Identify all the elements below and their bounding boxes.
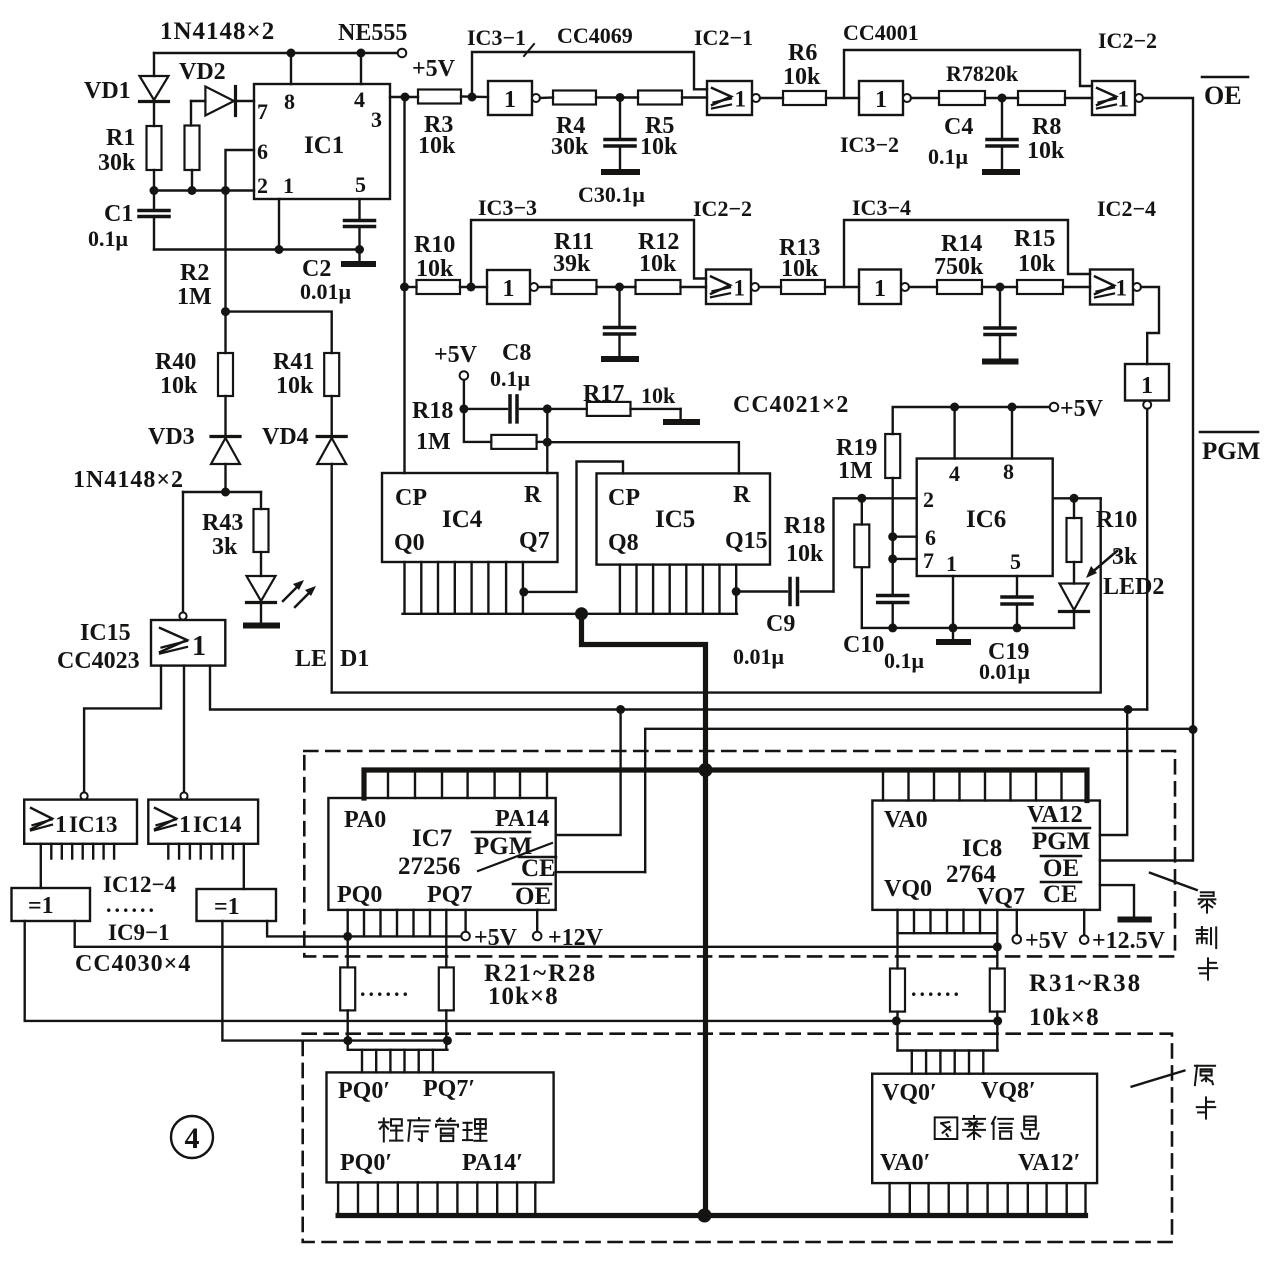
label PQ0p bottom xyxy=(340,1150,392,1176)
label OE IC7 xyxy=(513,883,551,910)
svg-text:IC2−2: IC2−2 xyxy=(693,196,752,221)
wire gate to R13 xyxy=(759,286,781,288)
card pins PQ bottom xyxy=(338,1182,535,1213)
wire pin7 IC6 xyxy=(893,558,917,560)
svg-text:VD2: VD2 xyxy=(179,59,226,85)
label +5V row1 xyxy=(412,56,456,82)
wire pin1 IC6 xyxy=(952,576,954,628)
svg-text:+12.5V: +12.5V xyxy=(1092,928,1166,954)
IC4 shift register box xyxy=(382,473,558,562)
label 1N4148x2 b xyxy=(73,467,184,493)
svg-text:1: 1 xyxy=(1118,87,1130,112)
capacitor C9 xyxy=(736,579,833,605)
label CC4023 xyxy=(57,648,140,674)
svg-text:IC4: IC4 xyxy=(442,506,483,533)
buffer gate 1 PGM xyxy=(1125,364,1169,409)
svg-text:R18: R18 xyxy=(784,513,825,539)
svg-text:0.1μ: 0.1μ xyxy=(928,144,969,169)
svg-text:0.01μ: 0.01μ xyxy=(979,659,1031,684)
pin 6 IC6 xyxy=(925,525,936,550)
svg-text:1M: 1M xyxy=(416,429,451,455)
label IC3-4 xyxy=(852,195,911,220)
label IC2-2 row2 xyxy=(693,196,752,221)
card box program mgmt xyxy=(327,1072,554,1182)
IC5 output pins xyxy=(620,565,736,614)
resistor R6 xyxy=(783,91,826,105)
label CC4030x4 xyxy=(75,951,191,977)
svg-text:10k: 10k xyxy=(640,134,678,160)
IC7 address pins xyxy=(388,770,547,798)
svg-text:R: R xyxy=(733,482,751,508)
svg-text:=1: =1 xyxy=(28,893,54,919)
IC8 address pins xyxy=(883,770,1062,801)
label C8 xyxy=(502,340,531,366)
capacitor C10 xyxy=(878,596,908,628)
svg-text:2: 2 xyxy=(257,173,268,198)
svg-text:1: 1 xyxy=(1141,373,1153,399)
pin Q0 IC4 xyxy=(394,530,425,556)
resistor R13 xyxy=(781,280,825,294)
svg-text:1: 1 xyxy=(875,87,887,113)
wire IC2-4 out xyxy=(1141,287,1159,364)
svg-text:IC9−1: IC9−1 xyxy=(108,920,170,945)
svg-text:30k: 30k xyxy=(98,150,136,176)
svg-text:+5V: +5V xyxy=(474,925,518,951)
svg-text:PA14: PA14 xyxy=(495,806,549,832)
ground C3 xyxy=(604,169,637,175)
wire top supply rail to NE555 terminal xyxy=(154,49,406,58)
resistor R41 xyxy=(324,353,339,434)
svg-text:R40: R40 xyxy=(155,349,196,375)
svg-text:VD1: VD1 xyxy=(84,78,131,104)
pin Q8 IC5 xyxy=(608,530,639,556)
svg-text:C30.1μ: C30.1μ xyxy=(578,182,645,207)
node junction VD3 out xyxy=(221,488,230,497)
svg-text:VA0: VA0 xyxy=(884,807,928,833)
wire CE net xyxy=(645,729,1193,872)
node junction C30 xyxy=(615,283,624,292)
label IC2-4 xyxy=(1097,196,1156,221)
node junction C8 left xyxy=(459,404,468,413)
inverter IC3-2 xyxy=(859,81,911,115)
resistor R19 xyxy=(885,434,900,593)
svg-text:1: 1 xyxy=(946,551,957,576)
svg-text:10k: 10k xyxy=(276,373,314,399)
node junction R2 top xyxy=(221,186,230,195)
ground R17 xyxy=(666,409,697,422)
svg-text:10k: 10k xyxy=(418,133,456,159)
wire pin8 xyxy=(290,53,292,84)
wire to IC5 R xyxy=(547,442,739,473)
svg-text:C1: C1 xyxy=(104,201,133,227)
label C8 0.1u xyxy=(490,366,531,391)
capacitor C2 xyxy=(345,199,375,250)
dashed box recording card xyxy=(304,751,1175,956)
terminal +5V IC7 xyxy=(461,910,517,951)
svg-text:10k: 10k xyxy=(1018,251,1056,277)
svg-text:4: 4 xyxy=(185,1122,200,1155)
label circled 4 xyxy=(171,1116,213,1158)
resistor R3 xyxy=(418,90,488,104)
label R8 10k xyxy=(1027,114,1065,164)
led arrows xyxy=(283,580,316,607)
svg-text:LE: LE xyxy=(295,646,327,672)
svg-text:10k: 10k xyxy=(1027,138,1065,164)
label C2 0.01u xyxy=(300,256,352,304)
svg-text:IC3−4: IC3−4 xyxy=(852,195,911,220)
svg-text:......: ...... xyxy=(911,976,962,1001)
svg-text:R43: R43 xyxy=(202,510,243,536)
wire OE net xyxy=(1143,98,1193,861)
resistor R40 xyxy=(218,312,233,434)
terminal +5V middle xyxy=(434,342,478,380)
wire +5V rail IC6 xyxy=(893,403,1059,434)
resistor R21 xyxy=(340,967,355,1049)
svg-text:10k: 10k xyxy=(416,256,454,282)
label R5 10k xyxy=(640,113,678,160)
card box pattern info xyxy=(872,1074,1097,1183)
svg-text:1: 1 xyxy=(504,87,516,113)
wire feedback IC3-2 xyxy=(844,50,1092,98)
resistor R10 3k xyxy=(1067,498,1082,562)
capacitor row2 right xyxy=(985,287,1015,359)
pin 3 label xyxy=(371,107,382,132)
diode VD3 xyxy=(211,437,240,493)
svg-text:PGM: PGM xyxy=(1202,438,1260,465)
dots IC12 xyxy=(106,892,157,917)
pin 1 IC6 xyxy=(946,551,957,576)
label IC15 xyxy=(80,620,131,646)
label IC2-2 top xyxy=(1098,28,1157,53)
svg-text:IC2−4: IC2−4 xyxy=(1097,196,1156,221)
label VA12p xyxy=(1018,1150,1080,1176)
IC4 output pins xyxy=(405,562,523,614)
node junction row2 cap xyxy=(996,283,1005,292)
svg-text:R: R xyxy=(524,482,542,508)
pin 2 IC6 xyxy=(923,487,934,512)
svg-text:VA0′: VA0′ xyxy=(880,1150,930,1176)
label LED1 xyxy=(295,646,369,672)
wire to R4 xyxy=(540,96,553,99)
thick address bus xyxy=(364,770,1087,801)
ground C30 xyxy=(604,356,636,362)
inverter IC3-1 xyxy=(488,81,540,115)
IC13 pins xyxy=(51,844,114,859)
resistor R4 xyxy=(553,91,596,105)
label R14 750k xyxy=(934,231,984,280)
svg-text:IC1: IC1 xyxy=(304,132,344,159)
card pins VQ xyxy=(912,1051,984,1074)
svg-text:CC4069: CC4069 xyxy=(557,23,633,48)
resistor R7 xyxy=(939,91,985,105)
svg-text:CC4023: CC4023 xyxy=(57,648,140,674)
node junction pin7 tie xyxy=(888,554,897,563)
leader recording card xyxy=(1150,873,1197,890)
label VD3 xyxy=(148,424,195,450)
label PA0 xyxy=(344,807,386,833)
label PQ7 xyxy=(427,882,472,908)
svg-text:1N4148×2: 1N4148×2 xyxy=(73,467,184,493)
label PGM IC8 xyxy=(1032,828,1090,855)
node junction Q15 xyxy=(732,587,741,596)
xor gate right =1 xyxy=(197,889,277,921)
ground C4 xyxy=(985,169,1017,175)
label OE bar xyxy=(1202,77,1248,110)
svg-text:0.01μ: 0.01μ xyxy=(733,644,785,669)
resistor R28 xyxy=(439,967,454,1049)
svg-text:10k: 10k xyxy=(783,64,821,90)
svg-text:C10: C10 xyxy=(843,632,884,658)
node junction PGM IC8 xyxy=(1124,705,1133,714)
label R18 10k b xyxy=(784,513,825,567)
node junction pin4 rail IC6 xyxy=(950,403,959,412)
label IC7 xyxy=(412,825,452,852)
pin 7 IC6 xyxy=(923,548,934,573)
label R18 1M xyxy=(412,398,453,455)
svg-text:R6: R6 xyxy=(788,40,817,66)
IC1 timer NE555 box xyxy=(254,84,390,199)
wire PQ pin rail xyxy=(348,1049,448,1051)
node junction C19 rail xyxy=(1013,623,1022,632)
svg-text:27256: 27256 xyxy=(398,853,461,880)
wire pin3 out IC6 xyxy=(1053,497,1101,499)
label IC3-3 xyxy=(478,195,537,220)
label VQ0 xyxy=(884,876,932,902)
resistor R43 xyxy=(254,509,269,552)
label PGM bar xyxy=(1200,432,1260,465)
node junction R10 in xyxy=(400,283,409,292)
node junction R3 out xyxy=(468,93,477,102)
svg-text:VQ8′: VQ8′ xyxy=(981,1078,1036,1104)
capacitor C1 xyxy=(139,191,169,250)
card pins PQ xyxy=(362,1050,433,1073)
label IC8 xyxy=(962,835,1002,862)
svg-text:R31~R38: R31~R38 xyxy=(1029,970,1142,997)
node junction PQ0p xyxy=(343,1036,352,1045)
svg-text:PA0: PA0 xyxy=(344,807,386,833)
svg-text:+5V: +5V xyxy=(412,56,456,82)
label 10kx8 left xyxy=(488,983,559,1010)
node junction C10 rail xyxy=(888,623,897,632)
label R11 39k xyxy=(553,229,594,277)
wire IC14 to xor xyxy=(243,844,245,889)
label R21-R28 xyxy=(484,960,597,987)
svg-text:IC6: IC6 xyxy=(966,506,1006,533)
svg-text:0.01μ: 0.01μ xyxy=(300,279,352,304)
label VA0p xyxy=(880,1150,930,1176)
wire R11 to node xyxy=(597,286,636,288)
label CC4021x2 xyxy=(733,392,849,418)
node junction PQ7p xyxy=(443,1036,452,1045)
wire IC8 OE pin xyxy=(1100,859,1192,861)
resistor R18 10k xyxy=(854,498,869,628)
resistor R5 xyxy=(638,91,707,105)
label VA0 xyxy=(884,807,928,833)
resistor R38 xyxy=(990,969,1005,1051)
svg-text:1: 1 xyxy=(192,631,206,662)
wire IC6 out loop to VD4 xyxy=(332,498,1101,692)
svg-text:0.1μ: 0.1μ xyxy=(490,366,531,391)
svg-text:IC8: IC8 xyxy=(962,835,1002,862)
svg-text:R18: R18 xyxy=(412,398,453,424)
svg-text:IC13: IC13 xyxy=(69,812,118,837)
label PA14 xyxy=(495,806,549,832)
label IC3-1 xyxy=(467,25,526,50)
svg-text:2: 2 xyxy=(923,487,934,512)
card pins VQ bottom xyxy=(890,1183,1086,1213)
svg-text:10k: 10k xyxy=(639,251,677,277)
wire pin2 row xyxy=(154,189,254,191)
wire pin8 IC6 xyxy=(1011,407,1013,459)
wire +5V down xyxy=(463,380,465,409)
led LED2 xyxy=(1060,562,1089,628)
nor gate IC15 xyxy=(151,612,225,665)
label +5V IC6 xyxy=(1060,396,1104,422)
label R6 10k xyxy=(783,40,821,90)
label LED2 xyxy=(1103,574,1164,600)
svg-text:39k: 39k xyxy=(553,251,591,277)
inverter IC3-4 xyxy=(859,270,909,305)
svg-text:1: 1 xyxy=(283,173,294,198)
label PGM IC7 xyxy=(472,832,532,860)
label IC2-1 xyxy=(694,25,753,50)
node junction C8 right xyxy=(543,404,552,413)
node junction pin8 rail IC6 xyxy=(1008,403,1017,412)
svg-text:+5V: +5V xyxy=(1060,396,1104,422)
label R3 10k xyxy=(418,112,456,159)
or-gate IC2-1 xyxy=(707,81,760,115)
node junction Q7 xyxy=(519,587,528,596)
label VQ0p xyxy=(882,1080,937,1106)
label R10 3k xyxy=(1096,507,1138,570)
svg-text:10k: 10k xyxy=(786,541,824,567)
svg-text:Q8: Q8 xyxy=(608,530,639,556)
wire R6 to IC3-2 xyxy=(826,97,859,99)
svg-text:NE555: NE555 xyxy=(338,20,407,46)
wire feedback IC3-1 xyxy=(472,52,707,97)
svg-text:1: 1 xyxy=(734,275,746,300)
svg-text:8: 8 xyxy=(1003,459,1014,484)
svg-text:+5V: +5V xyxy=(1025,928,1069,954)
svg-text:R10: R10 xyxy=(1096,507,1137,533)
svg-text:PQ0: PQ0 xyxy=(337,882,382,908)
svg-text:PA14′: PA14′ xyxy=(462,1150,523,1176)
svg-text:3k: 3k xyxy=(212,534,238,560)
svg-text:OE: OE xyxy=(1043,855,1079,882)
svg-text:IC3−3: IC3−3 xyxy=(478,195,537,220)
wire PQ7 pin xyxy=(445,910,447,968)
wire pin4 IC6 xyxy=(953,407,955,459)
label R2 1M xyxy=(177,260,212,310)
svg-text:CC4030×4: CC4030×4 xyxy=(75,951,191,977)
pin 4 IC6 xyxy=(949,461,960,486)
IC5 shift register box xyxy=(597,473,771,564)
wire VD3 node xyxy=(183,491,261,493)
wire VQ0 pin xyxy=(896,910,898,969)
wire gate to R6 xyxy=(760,97,783,99)
capacitor C19 xyxy=(1002,576,1032,628)
label 27256 xyxy=(398,853,461,880)
label R10 10k xyxy=(414,232,455,282)
wire buffer out xyxy=(1146,409,1148,710)
wire xorL in VQ0p xyxy=(25,921,998,1021)
slash PGM xyxy=(478,843,552,871)
svg-text:CE: CE xyxy=(521,855,556,882)
wire to R7 xyxy=(911,97,939,99)
resistor R17 xyxy=(547,402,680,416)
node junction VD2 resistor xyxy=(188,186,197,195)
label chinese pattern info xyxy=(935,1116,1039,1139)
node junction C2 bottom xyxy=(355,245,364,254)
wire pin6 IC6 xyxy=(893,536,917,538)
capacitor C3 xyxy=(605,98,635,170)
label PQ0 xyxy=(337,882,382,908)
label IC9-1 xyxy=(108,920,170,945)
label R13 10k xyxy=(779,235,820,282)
svg-text:8: 8 xyxy=(284,89,295,114)
label C19 0.01u xyxy=(979,639,1031,684)
pin 5 label xyxy=(355,172,366,197)
label IC3-2 xyxy=(840,132,899,157)
terminal +12V IC7 xyxy=(533,910,604,951)
wire pin6 link xyxy=(226,150,255,191)
label R31-R38 xyxy=(1029,970,1142,997)
resistor R18 reset xyxy=(464,409,547,449)
terminal +5V IC8 xyxy=(1013,910,1069,954)
label VQ7 xyxy=(977,884,1025,910)
wire to IC15 xyxy=(182,492,184,612)
label R43 3k xyxy=(202,510,243,560)
resistor R1 xyxy=(147,126,162,191)
svg-text:10k×8: 10k×8 xyxy=(488,983,559,1010)
svg-text:CP: CP xyxy=(395,485,427,511)
led LED1 xyxy=(246,552,277,626)
thick data bus bottom xyxy=(338,1213,1085,1218)
label IC12-4 xyxy=(103,872,177,897)
label CE IC8 xyxy=(1041,881,1081,908)
wire R2 to dividers xyxy=(226,312,332,353)
node junction pin6 tie xyxy=(888,532,897,541)
nor gate IC13 xyxy=(24,792,137,843)
svg-text:1: 1 xyxy=(874,276,886,302)
node junction VQ0p xyxy=(892,1016,901,1025)
svg-text:10k: 10k xyxy=(781,256,819,282)
label VA12 xyxy=(1027,802,1083,828)
pin 5 IC6 xyxy=(1010,549,1021,574)
label C4 0.1u xyxy=(928,114,973,169)
svg-text:4: 4 xyxy=(354,87,365,112)
node junction R18 out xyxy=(543,438,552,447)
node junction OE CE xyxy=(1189,725,1198,734)
svg-text:+5V: +5V xyxy=(434,342,478,368)
svg-text:C4: C4 xyxy=(944,114,973,140)
svg-text:IC2−2: IC2−2 xyxy=(1098,28,1157,53)
label R40 10k xyxy=(155,349,198,399)
wire to IC4 R xyxy=(546,409,548,473)
pin 1 label xyxy=(283,173,294,198)
svg-text:VQ0: VQ0 xyxy=(884,876,932,902)
svg-text:PGM: PGM xyxy=(1032,828,1090,855)
pin CP IC4 xyxy=(395,485,427,511)
svg-text:PQ0′: PQ0′ xyxy=(338,1078,390,1104)
label R19 1M xyxy=(836,435,877,484)
wire IC7 CE pin xyxy=(556,871,646,873)
wire feedback IC3-3 xyxy=(471,220,706,287)
wire IC4 pin rail xyxy=(403,613,738,615)
label PQ7p top xyxy=(423,1076,475,1102)
capacitor C30 xyxy=(605,287,635,356)
node junction R10 out xyxy=(467,283,476,292)
